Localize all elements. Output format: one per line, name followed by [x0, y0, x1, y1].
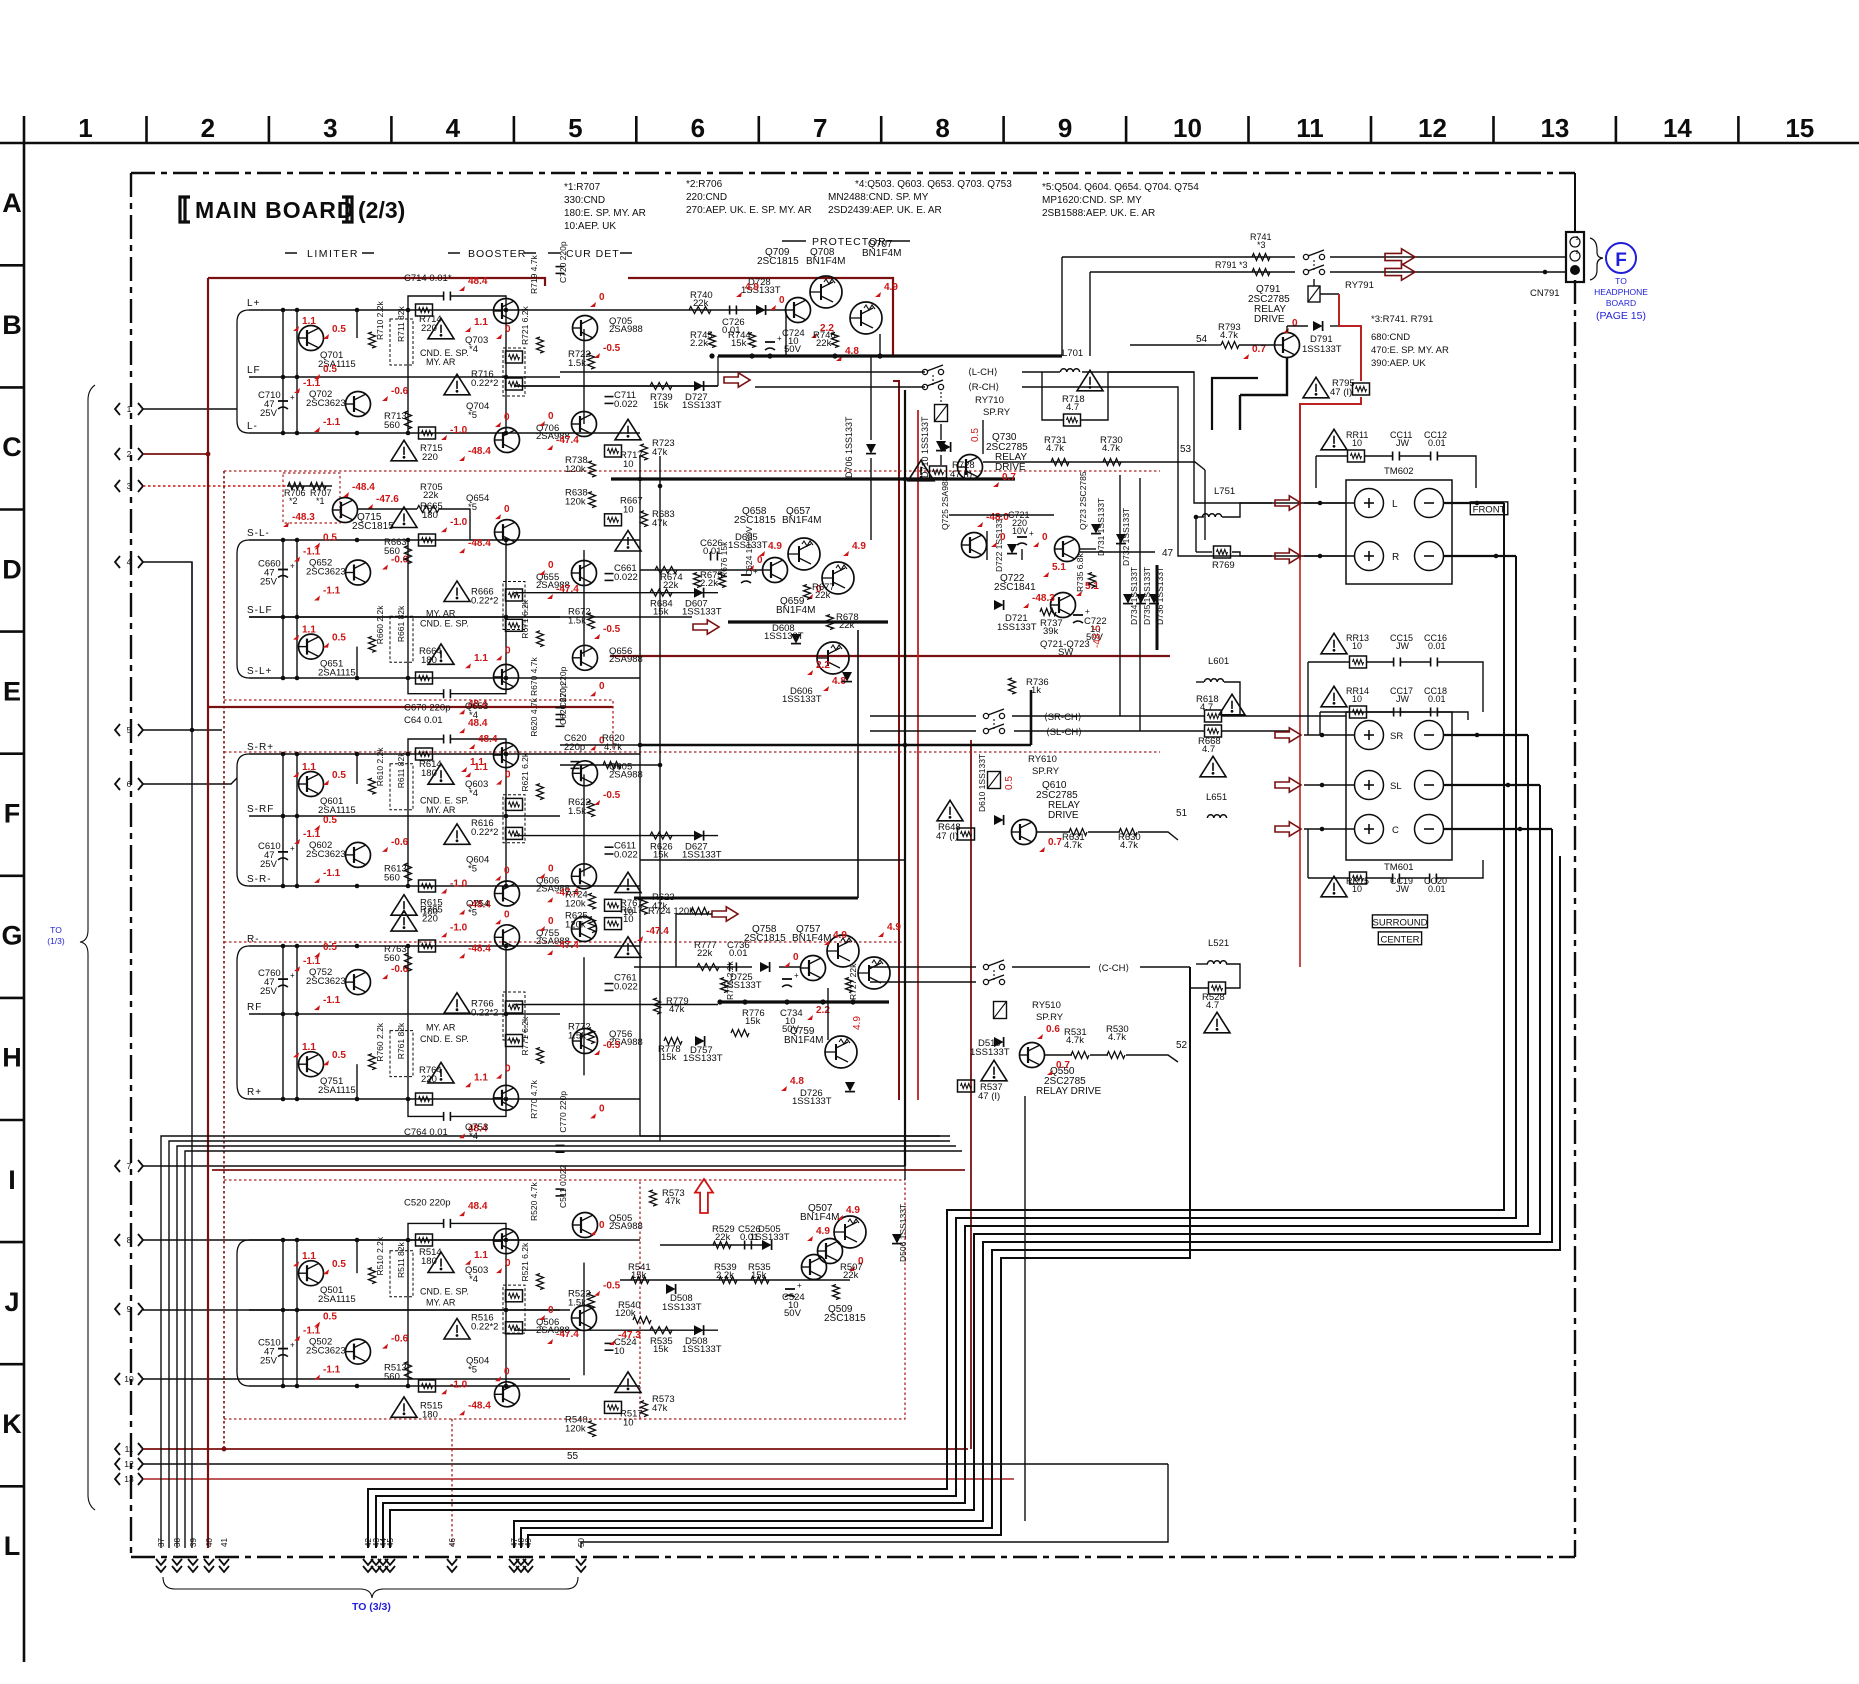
- svg-text:C: C: [1392, 825, 1399, 836]
- svg-text:CND. E. SP.: CND. E. SP.: [420, 1287, 469, 1297]
- transistor Q507: [834, 1216, 866, 1248]
- diode D725: [760, 962, 770, 972]
- svg-text:4.7k: 4.7k: [1046, 443, 1064, 454]
- C5 rail mid wire: [249, 1309, 560, 1311]
- bus pin37: [161, 1136, 940, 1548]
- svg-text:*5: *5: [468, 1364, 477, 1375]
- svg-text:-0.5: -0.5: [603, 624, 621, 635]
- svg-text:R670 4.7k: R670 4.7k: [529, 657, 539, 696]
- terminal SL-: [1415, 771, 1444, 800]
- junction bus: [749, 353, 754, 358]
- svg-text:7: 7: [127, 1161, 132, 1171]
- R resistor R764: [416, 1093, 433, 1105]
- R resistor R765: [419, 940, 436, 952]
- thick bus L: [718, 354, 1062, 357]
- svg-text:2.2k: 2.2k: [716, 1270, 734, 1281]
- R wire v4: [407, 946, 409, 1099]
- SR resistor R617: [605, 899, 622, 911]
- svg-text:C64 0.01: C64 0.01: [404, 715, 443, 726]
- SL junction: [355, 676, 360, 681]
- svg-text:L751: L751: [1214, 486, 1235, 497]
- C5 wire v4: [407, 1240, 409, 1386]
- svg-text:14: 14: [1663, 113, 1692, 143]
- warn L701: [1077, 370, 1103, 391]
- svg-text:RY510: RY510: [1032, 1000, 1061, 1011]
- svg-text:0.01: 0.01: [729, 948, 748, 959]
- C5 transistor Q502: [346, 1339, 371, 1364]
- junction bus: [709, 353, 714, 358]
- svg-text:SP.RY: SP.RY: [983, 407, 1011, 418]
- svg-text:40: 40: [205, 1538, 214, 1547]
- svg-text:10: 10: [623, 505, 634, 516]
- svg-text:50V: 50V: [782, 1024, 800, 1035]
- svg-text:4.9: 4.9: [816, 1226, 830, 1237]
- SL junction: [406, 676, 411, 681]
- svg-text:-47.4: -47.4: [646, 926, 669, 937]
- SR transistor Q603: [494, 743, 519, 768]
- svg-text:Q725 2SA988: Q725 2SA988: [940, 476, 950, 530]
- svg-text:49: 49: [524, 1538, 533, 1547]
- svg-text:0: 0: [504, 504, 510, 515]
- terminal C-: [1415, 815, 1444, 844]
- terminal L-: [1415, 489, 1444, 518]
- svg-text:+: +: [290, 971, 295, 980]
- svg-text:R520 4.7k: R520 4.7k: [529, 1182, 539, 1221]
- svg-text:LF: LF: [247, 365, 261, 376]
- svg-text:1.1: 1.1: [302, 316, 316, 327]
- svg-text:4.9: 4.9: [833, 930, 847, 941]
- resistor R741: [1252, 254, 1270, 261]
- svg-text:22k: 22k: [816, 338, 832, 349]
- SR wire v2: [296, 754, 298, 886]
- SL wire v4: [407, 540, 409, 678]
- capacitor C624: [741, 574, 751, 576]
- svg-text:1: 1: [78, 113, 92, 143]
- svg-text:CND. E. SP.: CND. E. SP.: [420, 618, 469, 628]
- R junction: [406, 1097, 411, 1102]
- svg-text:0: 0: [548, 560, 554, 571]
- resistor R528: [1209, 982, 1226, 994]
- SL wire mid row: [514, 592, 718, 594]
- svg-text:TM601: TM601: [1384, 862, 1414, 873]
- svg-text:R660 2.2k: R660 2.2k: [375, 605, 385, 644]
- svg-text:E: E: [3, 676, 21, 706]
- R transistor Q752: [346, 970, 371, 995]
- svg-text:*5:Q504. Q604. Q654. Q704. Q75: *5:Q504. Q604. Q654. Q704. Q754: [1042, 182, 1199, 193]
- svg-text:15k: 15k: [653, 400, 669, 411]
- svg-text:0: 0: [505, 324, 511, 335]
- switch C-CH: [983, 964, 988, 969]
- svg-text:R621 6.2k: R621 6.2k: [520, 752, 530, 791]
- svg-text:4.9: 4.9: [884, 282, 898, 293]
- speaker bus 3: [383, 735, 1528, 1548]
- R input bracket: [237, 946, 249, 1099]
- svg-text:2SC1815: 2SC1815: [352, 521, 394, 532]
- svg-text:180:E. SP. MY. AR: 180:E. SP. MY. AR: [564, 208, 646, 219]
- svg-text:-47.3: -47.3: [618, 1330, 641, 1341]
- svg-text:R-: R-: [247, 934, 260, 945]
- wire L-CH: [560, 371, 925, 373]
- rail maroon relay: [970, 740, 972, 1449]
- wire C5 row2: [620, 1279, 850, 1281]
- svg-text:2SC1815: 2SC1815: [824, 1313, 866, 1324]
- diode D608: [791, 634, 801, 644]
- wire pin1: [143, 408, 237, 410]
- wire SLF long: [249, 616, 560, 618]
- svg-text:0: 0: [599, 1220, 605, 1231]
- svg-text:0: 0: [1000, 532, 1006, 543]
- rail -48V A: [207, 278, 209, 1548]
- diode D728: [756, 305, 766, 315]
- wire CN791 a: [1330, 256, 1566, 258]
- SR transistor Q604: [495, 881, 520, 906]
- svg-text:A: A: [2, 188, 22, 218]
- thick bus F: [640, 744, 1031, 747]
- wire CN791 b: [1330, 271, 1566, 273]
- C5 wire v5: [505, 1240, 507, 1386]
- wire Q610 out: [1037, 831, 1070, 833]
- svg-text:BOARD: BOARD: [1606, 298, 1636, 308]
- C5 resistor R515: [419, 1380, 436, 1392]
- svg-text:1.1: 1.1: [474, 653, 488, 664]
- transistor Q657: [788, 538, 820, 570]
- svg-text:38: 38: [173, 1538, 182, 1547]
- svg-text:(2/3): (2/3): [358, 197, 405, 223]
- R rail bottom wire: [249, 945, 640, 947]
- svg-text:C670 220p: C670 220p: [404, 703, 450, 714]
- svg-text:0: 0: [505, 770, 511, 781]
- R resistor R766: [444, 993, 470, 1013]
- SR transistor Q606: [572, 864, 597, 889]
- svg-text:R: R: [1392, 552, 1399, 563]
- svg-text:0: 0: [504, 1366, 510, 1377]
- svg-text:220: 220: [422, 452, 438, 463]
- svg-text:-47.4: -47.4: [556, 435, 579, 446]
- R junction: [295, 1097, 300, 1102]
- L junction: [295, 308, 300, 313]
- wire C- out: [1444, 828, 1552, 830]
- svg-text:0.022: 0.022: [614, 850, 638, 861]
- rail 48V top right: [628, 278, 893, 357]
- svg-text:0.22*2: 0.22*2: [471, 378, 498, 389]
- svg-text:S-L-: S-L-: [247, 528, 270, 539]
- wire Q709 bus: [785, 310, 787, 356]
- svg-text:0: 0: [1042, 532, 1048, 543]
- filter row RR14: [1321, 686, 1347, 707]
- svg-text:47: 47: [1162, 548, 1174, 559]
- svg-text:C620 220p: C620 220p: [558, 683, 568, 725]
- svg-text:SR: SR: [1390, 731, 1403, 742]
- wire R-CH mid: [514, 385, 718, 387]
- svg-text:F: F: [1615, 250, 1627, 271]
- wire CN791 top: [1574, 173, 1576, 232]
- top component notes: [564, 179, 1199, 232]
- svg-text:4.7k: 4.7k: [604, 742, 622, 753]
- dotted border C5 mid: [639, 1180, 641, 1419]
- thick bus E: [611, 477, 1015, 480]
- svg-text:MY. AR: MY. AR: [426, 1297, 456, 1307]
- wire Q715 row: [287, 485, 332, 487]
- capacitor C620: [571, 761, 580, 763]
- symbol F headphone: [1606, 243, 1636, 273]
- svg-text:0.5: 0.5: [332, 770, 346, 781]
- terminal R-: [1415, 542, 1444, 571]
- rail maroon SL: [208, 706, 613, 708]
- svg-text:C511 0.022: C511 0.022: [558, 1164, 568, 1208]
- terminal SL+: [1355, 771, 1384, 800]
- svg-text:*1:R707: *1:R707: [564, 182, 601, 193]
- wire relay loop: [1286, 326, 1288, 332]
- svg-text:SW: SW: [1058, 647, 1073, 658]
- R rail mid wire: [249, 1013, 560, 1015]
- C5 rail top wire: [249, 1239, 640, 1241]
- svg-text:1SS133T: 1SS133T: [782, 694, 822, 705]
- connector pin 1: [115, 403, 120, 415]
- svg-text:0.5: 0.5: [332, 633, 346, 644]
- wire L751 stub: [1195, 517, 1197, 552]
- svg-text:11: 11: [1296, 113, 1324, 143]
- resistor R745: [709, 333, 716, 348]
- label FRONT: [1470, 502, 1508, 515]
- transistor Q610: [1012, 820, 1037, 845]
- svg-text:560: 560: [384, 546, 400, 557]
- svg-text:R521 6.2k: R521 6.2k: [520, 1242, 530, 1281]
- SR transistor Q602: [346, 842, 371, 867]
- svg-text:10: 10: [623, 459, 634, 470]
- wire SL+ lead: [1304, 784, 1354, 786]
- transistor Q723: [1055, 537, 1080, 562]
- L junction: [406, 308, 411, 313]
- capacitor C526: [744, 1241, 746, 1250]
- svg-text:1SS133T: 1SS133T: [792, 1096, 832, 1107]
- svg-text:+: +: [290, 562, 295, 571]
- SL resistor R664: [416, 672, 433, 684]
- transistor Q708: [810, 276, 842, 308]
- svg-text:S-R+: S-R+: [247, 742, 274, 753]
- svg-text:2: 2: [127, 449, 132, 459]
- svg-text:2SA988: 2SA988: [609, 324, 643, 335]
- rail 48V top loop: [208, 278, 545, 286]
- diode D510: [994, 1037, 1004, 1047]
- resistor R744: [749, 333, 756, 348]
- svg-text:53: 53: [1180, 444, 1192, 455]
- wire R741 row: [1062, 256, 1295, 258]
- bus x1025: [1024, 1096, 1026, 1521]
- svg-text:0: 0: [1292, 318, 1298, 329]
- svg-text:0.5: 0.5: [1004, 776, 1015, 790]
- svg-text:-1.0: -1.0: [450, 879, 468, 890]
- connector pin 6: [115, 778, 120, 790]
- wire R- out: [1444, 555, 1516, 557]
- wire L521 loop: [1196, 963, 1208, 965]
- resistor R539: [719, 1277, 737, 1284]
- svg-text:+: +: [1085, 607, 1090, 616]
- C5 resistor R517: [605, 1401, 622, 1413]
- svg-text:0.7: 0.7: [1002, 472, 1016, 483]
- svg-text:(PAGE 15): (PAGE 15): [1596, 310, 1646, 322]
- svg-text:-0.5: -0.5: [603, 790, 621, 801]
- svg-text:4.8: 4.8: [790, 1076, 804, 1087]
- switch SR-CH: [983, 713, 988, 718]
- svg-text:0.01: 0.01: [1428, 438, 1446, 448]
- svg-text:-1.0: -1.0: [450, 425, 468, 436]
- SL resistor R665: [419, 534, 436, 546]
- svg-text:L521: L521: [1208, 938, 1229, 949]
- resistor R777: [697, 964, 719, 971]
- speaker bus 1: [368, 503, 1504, 1548]
- resistor R740: [689, 307, 711, 314]
- svg-text:-48.5: -48.5: [1092, 625, 1103, 648]
- diode D721: [994, 600, 1004, 610]
- capacitor C736: [729, 963, 731, 972]
- diode D508: [666, 1284, 676, 1294]
- svg-text:22k: 22k: [663, 580, 679, 591]
- wire C-CH: [1012, 966, 1090, 968]
- svg-text:RY791: RY791: [1345, 280, 1374, 291]
- wire R718 loop: [1042, 372, 1063, 420]
- resistor R677: [804, 585, 811, 600]
- svg-text:0.022: 0.022: [614, 399, 638, 410]
- svg-text:0: 0: [548, 863, 554, 874]
- svg-text:47 (I): 47 (I): [1330, 387, 1352, 398]
- R wire v5: [505, 946, 507, 1099]
- svg-text:0.01: 0.01: [740, 1232, 759, 1243]
- svg-text:25V: 25V: [260, 577, 278, 588]
- resistor R675: [694, 573, 701, 588]
- capacitor C726: [729, 306, 731, 315]
- arrow L spk: [1275, 496, 1301, 510]
- transistor Q791: [1275, 333, 1300, 358]
- wire L+ lead: [1304, 502, 1354, 504]
- svg-text:1SS133T: 1SS133T: [970, 1047, 1010, 1058]
- svg-text:-1.1: -1.1: [303, 547, 321, 558]
- arrow SR spk: [1275, 728, 1301, 742]
- relay RY710: [935, 405, 948, 422]
- L rail top wire: [249, 309, 640, 311]
- L wire v6: [583, 329, 585, 424]
- svg-text:50V: 50V: [784, 1308, 802, 1319]
- wire pin11: [143, 1448, 968, 1450]
- svg-text:4.9: 4.9: [768, 541, 782, 552]
- svg-text:4.7: 4.7: [1202, 744, 1215, 755]
- svg-text:45: 45: [386, 1538, 395, 1547]
- svg-text:BN1F4M: BN1F4M: [782, 515, 821, 526]
- svg-text:48.4: 48.4: [468, 718, 488, 729]
- transistor Q658: [763, 558, 788, 583]
- SL resistor R684: [650, 589, 672, 596]
- SL wire v3: [356, 647, 358, 678]
- svg-text:S-RF: S-RF: [247, 804, 274, 815]
- svg-text:MY. AR: MY. AR: [426, 357, 456, 367]
- brace TO (1/3): [80, 385, 95, 1510]
- SL wire v1: [282, 540, 284, 678]
- svg-text:2.2k: 2.2k: [690, 338, 708, 349]
- svg-text:0: 0: [548, 916, 554, 927]
- svg-text:R771 6.2k: R771 6.2k: [520, 1016, 530, 1055]
- arrow SL feed: [693, 620, 719, 634]
- SR wire v6: [583, 774, 585, 876]
- L rail mid wire: [249, 376, 560, 378]
- svg-text:15k: 15k: [653, 850, 669, 861]
- svg-text:3: 3: [127, 481, 132, 491]
- svg-text:1SS133T: 1SS133T: [682, 400, 722, 411]
- relay RY510: [994, 1002, 1007, 1019]
- wire up C5: [904, 1166, 906, 1180]
- label SURROUND: [1372, 915, 1427, 928]
- svg-text:TM602: TM602: [1384, 466, 1414, 477]
- svg-text:2SC3623: 2SC3623: [306, 849, 346, 860]
- bus pin37b: [169, 1141, 950, 1548]
- svg-text:470:E. SP. MY. AR: 470:E. SP. MY. AR: [1371, 345, 1449, 356]
- svg-text:15k: 15k: [653, 607, 669, 618]
- brace CN791: [1590, 238, 1603, 280]
- svg-text:C770 220p: C770 220p: [558, 1091, 568, 1133]
- C5 transistor Q504: [495, 1382, 520, 1407]
- svg-text:MP1620:CND. SP. MY: MP1620:CND. SP. MY: [1042, 195, 1142, 206]
- svg-text:4.7k: 4.7k: [1102, 443, 1120, 454]
- rail maroon SW: [610, 655, 1170, 657]
- transistor Q707: [850, 302, 882, 334]
- svg-text:-0.5: -0.5: [603, 343, 621, 354]
- svg-text:48.4: 48.4: [478, 734, 498, 745]
- svg-text:2.2k: 2.2k: [700, 578, 718, 589]
- svg-text:0.22*2: 0.22*2: [471, 595, 498, 606]
- svg-text:1.1: 1.1: [474, 317, 488, 328]
- svg-text:2: 2: [201, 113, 215, 143]
- wire red R795: [1300, 397, 1361, 560]
- svg-text:120k: 120k: [565, 1424, 586, 1435]
- svg-text:4.9: 4.9: [745, 282, 759, 293]
- connector pin 2: [115, 448, 120, 460]
- transistor Q507b: [818, 1239, 843, 1264]
- wire SR- out: [1444, 734, 1528, 736]
- filter row RR11: [1321, 429, 1347, 450]
- wire L- out: [1444, 502, 1504, 504]
- C5 resistor R513: [405, 1362, 412, 1380]
- svg-text:1SS133T: 1SS133T: [683, 1053, 723, 1064]
- wire C5 out row: [660, 1244, 762, 1246]
- svg-text:MN2488:CND. SP. MY: MN2488:CND. SP. MY: [828, 192, 929, 203]
- svg-text:L651: L651: [1206, 792, 1227, 803]
- svg-text:F: F: [4, 799, 21, 829]
- svg-text:+: +: [794, 971, 799, 980]
- SL wire v5: [505, 540, 507, 678]
- capacitor C626: [710, 552, 712, 561]
- svg-text:D: D: [2, 554, 22, 584]
- svg-text:25V: 25V: [260, 1356, 278, 1367]
- thick bus SW: [1156, 565, 1159, 650]
- switch S-L-CH: [922, 369, 927, 374]
- svg-text:R511 82k: R511 82k: [396, 1241, 406, 1278]
- resistor R728: [930, 466, 947, 478]
- svg-text:0.5: 0.5: [970, 428, 981, 442]
- svg-text:(1/3): (1/3): [47, 936, 65, 946]
- svg-text:2SC1815: 2SC1815: [757, 256, 799, 267]
- SL transistor Q654: [495, 520, 520, 545]
- svg-text:4: 4: [127, 557, 132, 567]
- svg-text:1.1: 1.1: [302, 1251, 316, 1262]
- SR junction: [504, 752, 509, 757]
- SR junction mid: [281, 814, 286, 819]
- svg-text:47 (I): 47 (I): [936, 831, 958, 842]
- svg-text:270:AEP. UK. E. SP. MY. AR: 270:AEP. UK. E. SP. MY. AR: [686, 205, 812, 216]
- rail -48V B: [223, 471, 225, 1449]
- dotted border C5 bot: [224, 1180, 905, 1419]
- svg-text:-48.4: -48.4: [468, 943, 491, 954]
- bus mid dark: [904, 390, 906, 1166]
- svg-text:10: 10: [124, 1374, 134, 1384]
- resistor R648: [958, 828, 975, 840]
